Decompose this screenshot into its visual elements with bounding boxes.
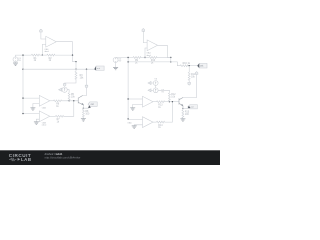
- junction dot Q2 emitter: [182, 108, 183, 109]
- wire jog to out row right: [171, 62, 180, 66]
- svg-text:out: out: [191, 106, 194, 109]
- CircuitLab logo: [9, 153, 32, 162]
- resistor R2: [47, 54, 55, 56]
- wire OA6 output to resistor R14: [153, 121, 157, 123]
- svg-text:1k: 1k: [49, 60, 52, 62]
- junction dot OA2 input: [22, 97, 23, 98]
- wire I1 right to resistor R5: [67, 90, 69, 93]
- net tag OUT1: [94, 66, 104, 70]
- svg-text:1k: 1k: [158, 127, 161, 129]
- svg-text:R16 1k: R16 1k: [183, 63, 191, 65]
- wire R12 bottom to base row: [168, 100, 170, 103]
- flag on collector net: [85, 85, 88, 88]
- svg-text:10k: 10k: [71, 97, 76, 99]
- wire OA4 inverting input down to row A': [145, 48, 147, 58]
- left arrow flag at I1: [59, 88, 62, 91]
- svg-text:OA6: OA6: [127, 122, 132, 125]
- resistor R8: [82, 109, 84, 117]
- resistor R15: [182, 110, 184, 118]
- wire R10 to jog dot: [157, 57, 171, 59]
- wire R2 to feedback vertical: [55, 54, 73, 56]
- wire base row to transistor Q2 base: [165, 101, 180, 103]
- svg-text:1k: 1k: [158, 107, 161, 109]
- resistor R16 on out row: [180, 65, 188, 67]
- voltage source V2: [113, 57, 118, 62]
- voltage source V1: [13, 57, 18, 62]
- ground below V1: [15, 61, 17, 64]
- op-amp OA3: [39, 111, 50, 122]
- junction dot jog lower: [75, 69, 76, 70]
- net tag OUT2: [197, 63, 207, 68]
- left arrow flag at I3: [148, 89, 151, 92]
- svg-text:LAB: LAB: [21, 157, 32, 162]
- wire OA1 output feedback down: [56, 42, 76, 62]
- resistor R1: [31, 54, 39, 56]
- wire I2 to I3: [155, 85, 157, 88]
- wire long row to jog dot: [23, 68, 76, 70]
- wire left net to OA6 noninverting input: [128, 118, 142, 121]
- op-amp OA1: [46, 36, 57, 47]
- svg-text:nttp://circuitlab.com/c8b4rnhw: nttp://circuitlab.com/c8b4rnhw: [45, 155, 81, 159]
- svg-text:5V: 5V: [18, 60, 21, 62]
- junction dot jog upper: [75, 61, 76, 62]
- wire OA3 inverting input to ground: [36, 119, 39, 122]
- wire left net to OA5 noninverting input: [128, 98, 142, 100]
- junction dot left net / long row: [22, 69, 23, 70]
- wire R9 to R10: [141, 57, 149, 59]
- junction dot row B' end: [170, 61, 171, 62]
- resistor R12 vertical: [168, 93, 170, 101]
- junction dot OA5 input: [127, 98, 128, 99]
- wire flag F2 to op-amp OA4 noninverting input: [143, 31, 147, 42]
- wire jog down: [170, 58, 172, 62]
- flag at I1 top: [63, 84, 66, 87]
- svg-text:1k: 1k: [34, 60, 37, 62]
- wire V2 top to row A': [116, 56, 133, 58]
- wire left net vertical right block: [127, 58, 129, 119]
- junction dot base row x169.4: [169, 101, 170, 102]
- wire V1 top to row A: [16, 55, 32, 57]
- wire left net to OA3 noninverting input: [23, 113, 39, 115]
- svg-text:OA2: OA2: [42, 107, 47, 110]
- resistor R3 below out row: [75, 69, 77, 71]
- svg-text:1k: 1k: [151, 63, 154, 65]
- junction dot left net / row A': [127, 57, 128, 58]
- svg-text:V3: V3: [154, 78, 157, 80]
- junction dot base row x73.8: [73, 100, 74, 101]
- current source I3 circle 2: [153, 88, 158, 93]
- resistor R9: [133, 57, 141, 59]
- junction dot R11 branch: [189, 65, 190, 66]
- wire OA2 inverting input to ground: [33, 104, 39, 108]
- ground at OA5: [130, 108, 135, 110]
- wire left net vertical from row A down to OA3 input: [22, 55, 24, 114]
- wire base row to transistor Q1 base: [62, 100, 79, 102]
- resistor R6: [54, 100, 62, 102]
- resistor R10: [149, 57, 157, 59]
- resistor R7: [56, 115, 64, 117]
- junction dot OA3 input: [22, 113, 23, 114]
- wire R3 bottom to current source I1: [65, 79, 76, 84]
- wire VCC to Q2 collector: [183, 74, 197, 97]
- wire R16 to tag: [188, 65, 197, 67]
- wire emitter down: [182, 106, 184, 110]
- wire R11 to flag down: [188, 80, 190, 82]
- svg-text:5V: 5V: [119, 61, 122, 63]
- wire out row to tag: [76, 68, 94, 70]
- junction dot left net / row B': [127, 61, 128, 62]
- wire OA6 inverting input to ground: [134, 124, 142, 127]
- junction dot inverting node: [42, 54, 43, 55]
- svg-text:100: 100: [185, 114, 190, 116]
- wire emitter to resistor R8: [82, 108, 84, 109]
- wire OA5 output to resistor R13: [153, 101, 157, 103]
- current source I2 circle 1: [153, 81, 158, 86]
- wire R7 up to base row: [64, 101, 74, 117]
- ground below R15: [180, 119, 185, 121]
- wire OA5 inverting input to ground: [133, 104, 143, 107]
- op-amp OA5: [143, 96, 154, 107]
- junction dot left net / row A: [22, 54, 23, 55]
- left arrow flag at I2: [148, 82, 151, 85]
- wire left net to OA2 noninverting input: [23, 97, 39, 99]
- wire R8 to ground: [82, 117, 84, 118]
- flag F1 input terminal: [40, 29, 43, 32]
- junction dot base row x69.1: [68, 100, 69, 101]
- resistor R13: [157, 101, 165, 103]
- ground at OA2: [30, 108, 35, 110]
- flag F2 input terminal: [142, 29, 145, 32]
- svg-text:1k: 1k: [57, 121, 60, 123]
- transistor Q2: [179, 98, 183, 107]
- wire flag F1 to op-amp OA1 noninverting input: [41, 32, 46, 39]
- svg-text:1k: 1k: [135, 63, 138, 65]
- op-amp OA2: [39, 95, 50, 106]
- wire jog down to out row: [75, 62, 77, 69]
- flag VCC right: [195, 72, 198, 75]
- svg-text:10k: 10k: [171, 97, 176, 99]
- wire I3 right to resistor R12: [158, 90, 169, 93]
- op-amp OA6: [143, 117, 154, 128]
- svg-text:ideal: ideal: [44, 51, 49, 53]
- svg-text:out: out: [97, 67, 100, 70]
- junction dot OA6 input: [127, 118, 128, 119]
- junction dot row A' end: [170, 57, 171, 58]
- svg-text:ideal: ideal: [146, 55, 151, 57]
- junction dot Q1 emitter: [83, 108, 84, 109]
- wire row B' long: [128, 61, 171, 63]
- ground below V2: [115, 62, 117, 67]
- junction dot base row x172.4: [172, 101, 173, 102]
- resistor R11 vertical below out row: [188, 66, 190, 73]
- svg-text:100: 100: [85, 113, 90, 115]
- wire OA2 output to resistor R6: [50, 100, 54, 102]
- net tag OUT left lower: [83, 102, 97, 108]
- junction dot feedback / row A: [72, 54, 73, 55]
- transistor Q1: [78, 96, 83, 106]
- svg-text:1k: 1k: [56, 106, 59, 108]
- svg-text:10k: 10k: [80, 77, 85, 79]
- net tag OUT3: [183, 105, 197, 109]
- footer bar: [0, 150, 220, 165]
- resistor R5 vertical: [68, 93, 70, 101]
- ground at OA6: [132, 126, 137, 128]
- svg-text:out: out: [91, 103, 95, 106]
- wire R14 up to base row: [165, 102, 173, 122]
- ground below R8: [81, 119, 86, 121]
- svg-text:5V: 5V: [161, 92, 164, 94]
- wire OA4 output feedback down: [158, 45, 171, 57]
- flag below R11: [188, 82, 191, 85]
- current source I1: [62, 87, 67, 92]
- svg-text:ideal: ideal: [42, 124, 47, 126]
- wire OA1 inverting input down to row A: [42, 44, 46, 55]
- svg-text:10k: 10k: [191, 76, 196, 78]
- svg-text:out: out: [200, 65, 204, 68]
- ground at OA3: [34, 122, 39, 124]
- junction dot inverting node right: [144, 57, 145, 58]
- wire OA3 output to resistor R7: [50, 115, 56, 117]
- resistor R14: [157, 121, 165, 123]
- wire R15 to ground: [182, 117, 184, 120]
- wire collector branch down: [83, 69, 87, 95]
- junction dot collector branch: [86, 69, 87, 70]
- op-amp OA4: [147, 40, 158, 51]
- wire R1 to R2: [39, 54, 46, 56]
